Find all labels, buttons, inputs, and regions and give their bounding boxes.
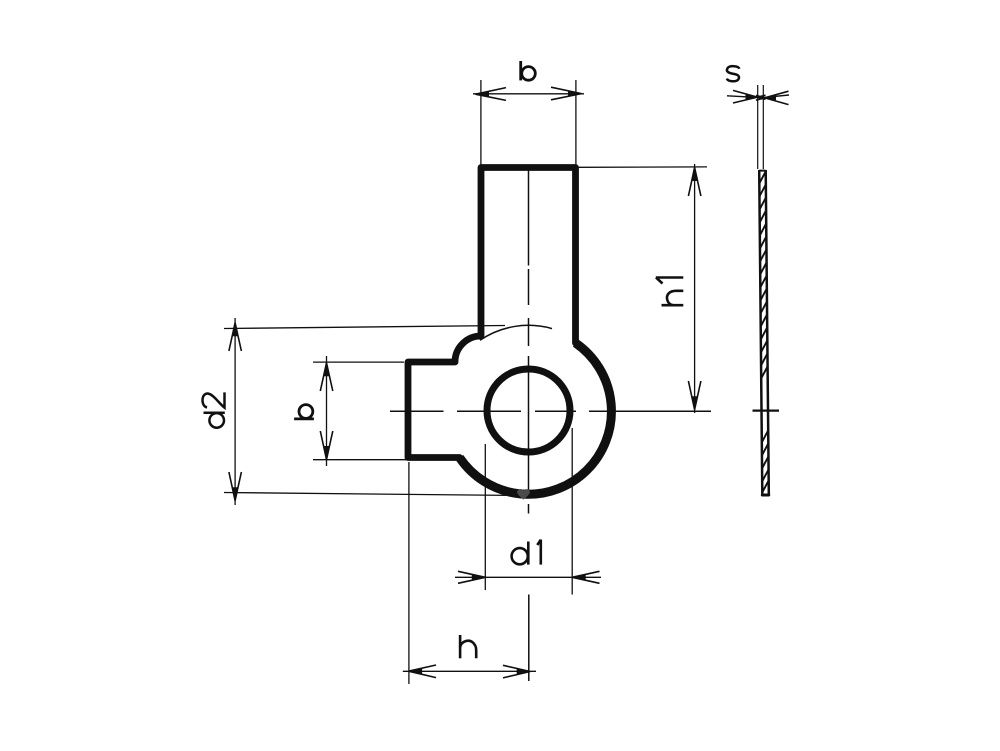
dim d2: top arrow [229, 323, 242, 351]
dim d1: right extension line [571, 428, 573, 595]
washer outline (plan view, thick) [408, 168, 611, 495]
outer arc heavier pass [460, 343, 612, 494]
side view strip (edge view of washer) [759, 170, 769, 496]
dim b left: bottom extension line [313, 459, 417, 461]
dim s: left extension line [757, 85, 759, 169]
dim b left: bottom arrow [320, 431, 333, 459]
dim h: right arrow (pointing right) [503, 665, 530, 678]
strip right edge [766, 170, 769, 496]
dim d1: left extension line [484, 444, 486, 590]
dim h1: top arrow [688, 168, 701, 196]
dim s: right arrow with tail (pointing left) [756, 91, 789, 104]
vertical centerline [528, 169, 530, 681]
dim d1: dimension line [455, 576, 601, 578]
strip left edge [759, 170, 762, 496]
label b left (rotated) [294, 405, 314, 419]
label s [727, 66, 740, 81]
watermark heart at circle bottom [517, 489, 530, 500]
dim b left: top extension line [313, 361, 404, 363]
label d2 (rotated) [202, 392, 224, 427]
hole d1 (thick circle) [487, 369, 570, 452]
dim b left: dimension line [326, 356, 328, 466]
dim b top: right extension line [575, 80, 577, 166]
dim s: left arrow with tail (pointing right) [727, 90, 766, 103]
dim b top: left arrow [476, 88, 507, 101]
dim s: right extension line [762, 85, 764, 169]
dim h: left arrow (pointing left) [409, 665, 436, 678]
dim d2: bottom arrow [229, 472, 242, 501]
dim h: left extension line [408, 462, 410, 684]
dim b top: left extension line [480, 80, 482, 166]
side view centerline tick [753, 410, 780, 412]
label b top [521, 61, 536, 80]
thin top arc of outer circle behind tab [480, 325, 552, 340]
dim d1: right arrow (outside, pointing left) [572, 571, 599, 583]
dim b top: right arrow [551, 87, 582, 100]
dim h: dimension line [403, 670, 536, 672]
strip top cap [759, 170, 765, 172]
strip bottom cap [762, 493, 768, 496]
strip hatching [759, 172, 768, 492]
dim d1: left arrow (outside, pointing right) [458, 571, 485, 583]
dim d2: bottom extension line [224, 493, 518, 496]
dim d2: top extension line [224, 326, 505, 329]
dim b top: dimension line [473, 93, 584, 95]
label d1 [512, 540, 541, 565]
horizontal centerline [390, 410, 711, 412]
label h1 (rotated) [656, 278, 684, 306]
dim h1: bottom arrow [688, 381, 701, 410]
dim b left: top arrow [320, 363, 333, 391]
dim h1: top extension line [578, 166, 707, 168]
label h [460, 635, 476, 658]
dim d2: dimension line [234, 318, 236, 505]
dim h1: dimension line [694, 164, 696, 413]
